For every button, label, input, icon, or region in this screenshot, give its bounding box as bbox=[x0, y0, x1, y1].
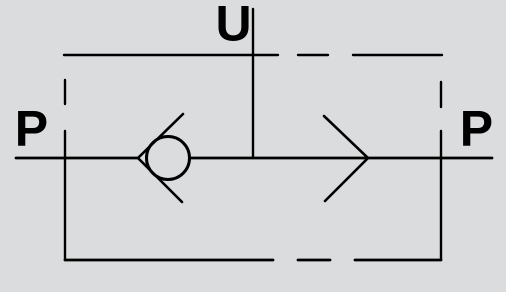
svg-text:P: P bbox=[460, 101, 493, 157]
svg-text:P: P bbox=[15, 101, 48, 157]
svg-text:U: U bbox=[216, 0, 252, 52]
